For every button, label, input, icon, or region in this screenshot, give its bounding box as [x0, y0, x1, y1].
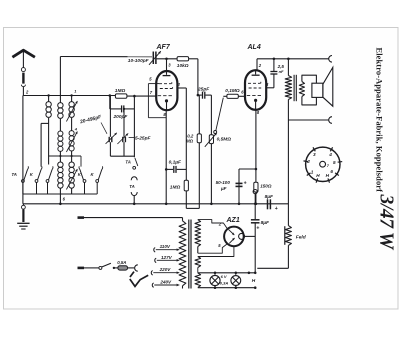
socket pin 5 [338, 161, 343, 164]
socket pin 3 [313, 147, 315, 151]
transformer T1 core [293, 75, 295, 101]
AF7 pin 2 anode stub [177, 87, 186, 89]
tube AL4 envelope [245, 70, 266, 110]
tube AZ1 envelope [224, 227, 244, 247]
tap 220V [151, 271, 152, 275]
switch K1 [35, 180, 38, 183]
transformer T1 secondary [299, 82, 304, 97]
wire HT top right [257, 58, 329, 60]
trimmer capacitor C5 10-100pF [152, 52, 154, 65]
wire antenna horizontal [23, 95, 115, 97]
label leader [101, 123, 107, 134]
connector C bottom speaker terminal [329, 117, 332, 124]
svg-text:nF: nF [279, 69, 284, 74]
AF7 pin 5 stub [148, 83, 159, 85]
tube socket diagram [306, 147, 340, 181]
svg-text:10-100pF: 10-100pF [128, 58, 150, 64]
tube AF7 envelope [156, 71, 177, 110]
transformer T2 core [188, 220, 190, 289]
wire bus2 ground bus [22, 194, 24, 204]
coil L1 antenna coil [48, 96, 50, 102]
wire heater top [198, 272, 255, 274]
switch K4 [96, 180, 99, 183]
transformer T1 primary [287, 59, 289, 76]
antenna [12, 50, 35, 57]
resistor R7 150&#937; [255, 169, 257, 182]
speaker voice coil [312, 83, 323, 97]
svg-text:110V: 110V [160, 244, 171, 249]
wire bus1 switch bus [23, 193, 97, 195]
wire to AF7 anode top [157, 58, 178, 60]
svg-text:200pF: 200pF [113, 114, 129, 120]
svg-text:1: 1 [311, 170, 314, 175]
wire AF7 anode down [185, 88, 187, 180]
AL4 grid 2 screen [249, 87, 262, 89]
connector C mains plug [135, 265, 138, 271]
svg-text:0,1MΩ: 0,1MΩ [225, 88, 240, 94]
svg-text:MΩ: MΩ [186, 138, 194, 143]
lamp La1 [214, 273, 216, 276]
transformer T2 rectifier heater winding [195, 257, 201, 268]
label 20-495pF [79, 114, 103, 126]
switch K3 [83, 180, 86, 183]
AL4 grid 1 [248, 82, 261, 84]
switch TA wave band [22, 180, 25, 183]
variable capacitor C2 20-495pF [123, 109, 125, 137]
wire HT to 25pF junction [189, 58, 198, 60]
AL4 pin 3 stub [266, 87, 274, 89]
svg-text:5-25pF: 5-25pF [135, 135, 152, 141]
capacitor C6 0.1uF [165, 168, 168, 171]
socket pin 6 [335, 173, 339, 176]
wire bottom speaker terminal [288, 119, 328, 121]
socket pin H [328, 178, 330, 182]
AF7 cathode [165, 99, 168, 102]
choke Feld field coil [284, 226, 286, 245]
svg-text:+: + [244, 180, 247, 186]
wire band select [49, 155, 81, 157]
svg-text:+: + [275, 206, 278, 212]
svg-text:6: 6 [330, 169, 333, 174]
switch K2 [46, 180, 49, 183]
svg-text:3/47 W: 3/47 W [376, 194, 397, 251]
svg-text:+: + [256, 226, 259, 232]
svg-text:150Ω: 150Ω [260, 184, 272, 189]
svg-text:5: 5 [333, 160, 336, 165]
wire antenna down-lead [22, 96, 24, 195]
lamp La2 [235, 273, 237, 276]
svg-text:Elektro-Apparate-Fabrik, Koppe: Elektro-Apparate-Fabrik, Koppelsdorf [375, 48, 385, 193]
socket pin 4 [330, 147, 332, 151]
tap 110V [154, 248, 155, 252]
wire oscillator top [60, 56, 152, 58]
svg-text:TA: TA [129, 184, 134, 189]
wire mains terminal to primary top [78, 216, 85, 219]
svg-text:10kΩ: 10kΩ [177, 63, 189, 69]
coil L3 variable stack [71, 96, 73, 102]
ground [22, 204, 24, 206]
svg-text:1MΩ: 1MΩ [170, 185, 181, 191]
svg-text:µF: µF [220, 186, 227, 191]
variable capacitor C1 20-495pF [109, 96, 111, 137]
wire varcap bottoms [110, 155, 134, 157]
socket pin 1 [307, 173, 311, 176]
AF7 anode [166, 71, 168, 75]
AL4 anode [255, 70, 257, 74]
svg-text:127V: 127V [161, 255, 173, 260]
switch S1 mains [99, 266, 102, 269]
svg-text:TA: TA [125, 159, 130, 164]
wire Feld bottom [257, 267, 288, 269]
svg-text:8µF: 8µF [265, 194, 274, 200]
wire L1 to switch [41, 122, 49, 124]
capacitor C9 50-100uF electrolytic [238, 169, 240, 204]
wire AL4 cathode down [255, 110, 257, 169]
AL4 grid 3 [247, 94, 261, 96]
capacitor C11 8uF electrolytic [251, 219, 260, 221]
AZ1 anodes [229, 230, 235, 235]
AF7 grid 1 [159, 83, 172, 85]
resistor R4 0.2M&#937; [198, 95, 200, 134]
svg-text:0,3A: 0,3A [220, 280, 229, 285]
AZ1 cathode wire [244, 235, 255, 237]
svg-text:240V: 240V [159, 280, 172, 285]
svg-text:AZ1: AZ1 [226, 217, 240, 224]
speaker cone [323, 67, 333, 106]
AZ1 filament [239, 233, 245, 239]
transformer T2 6V heater winding [195, 273, 201, 288]
wire wiper to AL4 grid [216, 98, 224, 131]
svg-text:220V: 220V [159, 267, 172, 272]
wire grid AF7 [127, 95, 157, 97]
svg-text:1MΩ: 1MΩ [115, 88, 126, 94]
AF7 grid 3 [158, 95, 172, 97]
svg-text:3: 3 [313, 152, 316, 157]
resistor R2 10k&#937; [177, 57, 189, 61]
antenna plug connector [21, 68, 25, 72]
svg-text:0,5A: 0,5A [117, 260, 126, 265]
capacitor C3 200pF [109, 96, 111, 109]
svg-text:AF7: AF7 [156, 44, 171, 51]
capacitor C8 2.5nF [273, 59, 275, 72]
coil L2 stack [59, 57, 61, 103]
transformer T2 primary [182, 218, 184, 221]
transformer T2 HT winding [195, 220, 201, 247]
AZ1 filament to winding [198, 246, 234, 256]
svg-text:Feld: Feld [296, 235, 307, 241]
svg-text:H: H [252, 278, 256, 284]
wire heater bottom [198, 287, 255, 289]
voltage selector plug [130, 272, 148, 287]
socket pin H [316, 178, 318, 182]
AL4 cathode [254, 99, 257, 102]
svg-text:8µF: 8µF [261, 220, 270, 226]
wire below bus [186, 207, 199, 209]
connector C top speaker terminal [329, 56, 332, 63]
capacitor C7 25pF [197, 94, 200, 97]
svg-text:0,1µF: 0,1µF [169, 159, 182, 165]
svg-text:AL4: AL4 [247, 44, 261, 51]
svg-text:0,5MΩ: 0,5MΩ [217, 137, 232, 143]
terminal mains [78, 267, 85, 270]
AF7 grid 2 [160, 88, 173, 90]
svg-text:2: 2 [306, 159, 310, 164]
potentiometer R5 0.5M&#937; [210, 95, 212, 135]
wire g3 to cathode [147, 84, 149, 118]
svg-text:6 V: 6 V [221, 274, 227, 279]
connector TA jack [131, 177, 137, 181]
socket pin 2 [304, 160, 309, 163]
svg-text:25pF: 25pF [197, 87, 210, 93]
svg-text:4: 4 [328, 152, 332, 157]
wire AF7 cathode down [165, 110, 167, 204]
svg-text:50-100: 50-100 [216, 180, 231, 185]
tap 127V [155, 258, 156, 262]
terminal circle HT [253, 190, 257, 194]
L3 adjust arrows [66, 101, 77, 122]
label 5-25pF [129, 137, 134, 139]
svg-text:TA: TA [12, 172, 17, 177]
wire L1 down to band wire [48, 118, 50, 156]
tap 240V [152, 283, 153, 287]
